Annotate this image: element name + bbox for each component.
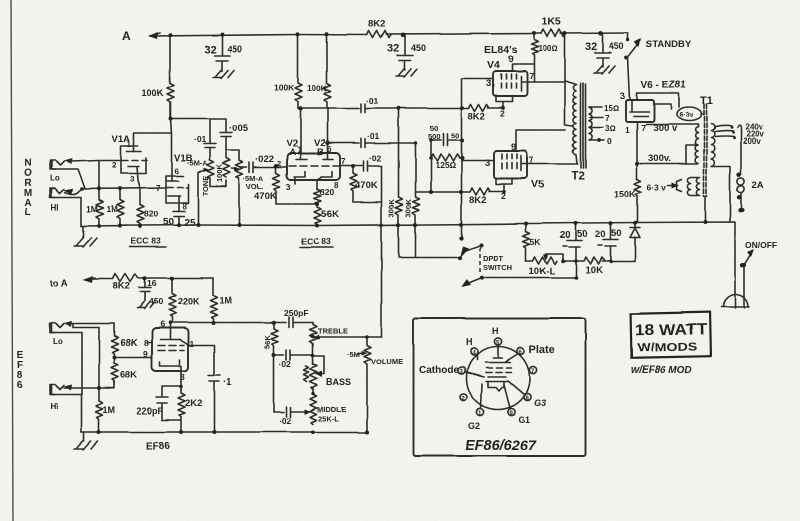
svg-text:8K2: 8K2 <box>113 281 130 292</box>
svg-text:MIDDLE: MIDDLE <box>317 405 346 414</box>
wire ground rail (EF86) <box>82 431 369 433</box>
resistor 8K2 (V4 grid stop) <box>399 104 504 111</box>
svg-text:1K5: 1K5 <box>542 16 561 28</box>
T1 HV centre tap <box>686 145 698 164</box>
svg-text:1M: 1M <box>103 405 116 415</box>
wire B+ rail <box>150 35 367 37</box>
svg-text:1: 1 <box>625 125 630 135</box>
wire B+ to OT centre tap <box>565 34 573 127</box>
transformer T1 HV secondary <box>695 127 698 163</box>
pin 2 <box>460 393 467 400</box>
svg-text:100K: 100K <box>142 88 164 98</box>
capacitor 20/50 (bias 2) <box>603 224 618 262</box>
wire Lo sleeve <box>52 170 85 189</box>
resistor 100K (V2A plate load) <box>295 35 302 110</box>
resistor 125 ohm (cathode bias) <box>431 140 462 161</box>
svg-text:6: 6 <box>160 319 165 329</box>
capacitor .01 (coupling to V5) <box>361 139 416 148</box>
potentiometer TREBLE <box>310 323 317 346</box>
svg-text:T2: T2 <box>571 171 584 183</box>
capacitor .01 (coupling to V4) <box>361 104 399 113</box>
paper speckle <box>0 0 1 1</box>
svg-text:32: 32 <box>204 44 216 56</box>
pin 9 <box>508 408 515 415</box>
svg-text:G2: G2 <box>468 421 480 431</box>
svg-text:G1: G1 <box>518 415 530 425</box>
svg-text:1M: 1M <box>219 295 232 305</box>
resistor 1M (input) <box>96 189 103 224</box>
resistor 470K (V2A grid leak) <box>273 166 317 204</box>
resistor 470K (divider) <box>350 166 382 202</box>
svg-text:9: 9 <box>143 349 148 359</box>
svg-text:7: 7 <box>529 155 534 165</box>
pin 3 <box>458 367 465 374</box>
resistor 100K (V1 plate load) <box>167 35 174 118</box>
resistor 5K <box>523 224 530 262</box>
resistor 8K2 (V5 grid stop) <box>416 188 505 195</box>
transformer T2 secondary <box>589 107 592 140</box>
resistor 56K (EF86 tone) <box>271 323 278 354</box>
wire Lo sleeve bus <box>52 333 82 395</box>
svg-text:3: 3 <box>486 78 491 89</box>
svg-text:VOL.: VOL. <box>246 182 264 191</box>
svg-text:3: 3 <box>180 372 185 382</box>
switch DPDT pole 1 <box>399 257 461 259</box>
svg-text:2A: 2A <box>752 180 764 191</box>
svg-text:8: 8 <box>182 202 187 211</box>
svg-text:300K: 300K <box>404 198 413 217</box>
svg-text:32: 32 <box>387 43 399 55</box>
svg-text:56K: 56K <box>263 335 272 349</box>
svg-text:820: 820 <box>320 187 334 197</box>
svg-text:·005: ·005 <box>229 123 249 134</box>
svg-text:450: 450 <box>227 44 242 54</box>
resistor 2K2 (cathode) <box>162 386 185 432</box>
resistor 68K (lower) <box>111 358 118 384</box>
svg-text:·022: ·022 <box>255 154 274 165</box>
potentiometer TONE .5M-A <box>207 160 214 178</box>
svg-text:EF86/6267: EF86/6267 <box>465 438 537 454</box>
svg-text:G3: G3 <box>534 398 546 408</box>
node A arrow (B+ rail to A) <box>150 33 160 36</box>
transformer T2 primary <box>565 81 577 164</box>
svg-text:50: 50 <box>577 229 588 240</box>
svg-text:3: 3 <box>130 175 135 184</box>
svg-text:16: 16 <box>147 278 157 288</box>
svg-text:20: 20 <box>595 229 606 240</box>
svg-text:470K: 470K <box>355 180 378 191</box>
tube V5 EL84 <box>494 151 527 179</box>
capacitor .02 (grid) <box>364 161 382 171</box>
svg-text:w/EF86 MOD: w/EF86 MOD <box>631 365 692 376</box>
svg-text:100Ω: 100Ω <box>538 44 558 53</box>
wire grid to EF86 <box>114 357 152 359</box>
svg-text:220pF: 220pF <box>137 406 164 416</box>
svg-text:H: H <box>492 326 499 336</box>
resistor 1M (input 2) <box>117 189 124 225</box>
EF86 pinout circle <box>467 347 530 410</box>
svg-text:32: 32 <box>585 41 597 53</box>
wire <box>560 32 628 35</box>
heater winding 6.3v (rectifier) <box>677 107 702 121</box>
potentiometer BASS <box>310 364 317 389</box>
svg-text:to A: to A <box>50 278 68 289</box>
transformer T1 primary <box>711 124 730 222</box>
switch DPDT pole 2 <box>466 278 576 285</box>
jack Lo (normal channel) <box>50 161 64 170</box>
wire <box>430 158 432 192</box>
svg-text:6·3v: 6·3v <box>679 112 693 119</box>
svg-text:1: 1 <box>127 140 132 149</box>
svg-text:8K2: 8K2 <box>469 195 486 206</box>
capacitor .01 (tone) <box>204 119 216 160</box>
ground <box>594 66 615 74</box>
svg-text:8: 8 <box>144 338 149 348</box>
svg-text:V6 - EZ81: V6 - EZ81 <box>641 80 686 91</box>
label NORMAL (vertical) <box>24 158 33 218</box>
svg-text:25K-L: 25K-L <box>318 414 339 423</box>
svg-text:2K2: 2K2 <box>185 398 202 409</box>
wire switch feed drop <box>381 166 383 337</box>
cathode V2B <box>317 172 332 190</box>
resistor 1M (EF86 plate-ish) <box>210 278 217 322</box>
label EF86 channel (vertical) <box>17 350 24 391</box>
capacitor 32/450 (filter 2) <box>401 33 406 38</box>
svg-text:·5M: ·5M <box>347 350 360 359</box>
triode V2A plate <box>296 109 307 160</box>
mains plug <box>721 295 749 308</box>
resistor 1K5 <box>541 30 565 37</box>
svg-text:·01: ·01 <box>194 134 207 144</box>
svg-text:20: 20 <box>560 230 571 241</box>
wire HT 300v upper <box>646 125 698 128</box>
pin 7 <box>529 366 536 373</box>
svg-text:8: 8 <box>334 181 339 190</box>
resistor 300K (V4 grid) <box>396 109 403 257</box>
svg-text:68K: 68K <box>120 370 138 381</box>
svg-text:1M: 1M <box>86 204 98 214</box>
svg-text:0: 0 <box>607 136 612 146</box>
svg-text:300 v: 300 v <box>653 123 677 134</box>
svg-text:220K: 220K <box>178 296 200 306</box>
capacitor 250pF <box>289 317 313 328</box>
svg-text:STANDBY: STANDBY <box>646 39 692 50</box>
capacitor .02 (bass) <box>274 350 313 360</box>
potentiometer VOLUME .5M <box>364 338 371 365</box>
wire plate node <box>172 322 286 324</box>
ground <box>213 70 234 78</box>
pin 8 <box>523 393 530 400</box>
svg-text:SWITCH: SWITCH <box>483 263 513 272</box>
triode V2B plate <box>323 108 333 160</box>
capacitor 20/50 (bias 1) <box>567 224 582 278</box>
resistor 100K (tone) <box>223 150 230 177</box>
wire rectifier output <box>636 122 638 179</box>
svg-text:450: 450 <box>411 43 426 53</box>
svg-text:B: B <box>317 147 324 158</box>
jack Lo (EF86) <box>50 323 64 333</box>
T1 primary taps 240/220/200 <box>715 126 734 137</box>
potentiometer VOL .5M-A <box>236 160 243 178</box>
wire plate node to tone stack <box>171 118 227 120</box>
svg-text:DPDT: DPDT <box>483 254 504 263</box>
capacitor .02 (middle) <box>274 407 305 417</box>
svg-text:Plate: Plate <box>529 344 555 356</box>
resistor 100 ohm (screen) <box>521 34 538 82</box>
svg-text:18 WATT: 18 WATT <box>635 321 708 340</box>
svg-text:ECC 83: ECC 83 <box>131 236 161 246</box>
wire Lo tip to V1A grid <box>70 161 121 162</box>
svg-text:450: 450 <box>149 296 163 306</box>
svg-text:·02: ·02 <box>369 153 382 163</box>
wire V2B grid tap <box>340 165 362 167</box>
capacitor .005 <box>220 119 239 160</box>
capacitor 32/450 (filter 3) <box>599 31 604 36</box>
wire HI sleeve to ground <box>52 395 82 433</box>
svg-text:300v.: 300v. <box>648 153 671 164</box>
svg-text:7: 7 <box>341 157 346 166</box>
page edge border line <box>11 0 13 521</box>
capacitor .022 (to V2A grid) <box>240 162 286 172</box>
svg-text:TONE: TONE <box>201 175 210 196</box>
svg-text:Cathode: Cathode <box>419 365 459 376</box>
fuse 2A <box>737 172 741 199</box>
svg-text:100K: 100K <box>307 83 328 93</box>
svg-text:450: 450 <box>609 41 624 51</box>
svg-text:W/MODS: W/MODS <box>637 341 698 354</box>
resistor 300K (V5 grid) <box>413 143 420 257</box>
svg-text:300K: 300K <box>387 198 396 217</box>
svg-text:H: H <box>466 337 473 347</box>
svg-text:6: 6 <box>17 380 23 391</box>
capacitor .1 (coupling) <box>208 376 220 433</box>
pin 6 <box>517 347 524 354</box>
svg-text:2: 2 <box>500 108 505 118</box>
diode (bias) <box>634 237 636 261</box>
svg-text:820: 820 <box>144 209 158 219</box>
resistor 220K <box>169 278 176 321</box>
wire grid bus <box>82 188 166 189</box>
capacitor 32/450 (filter 1) <box>214 35 230 72</box>
capacitor 50/500/50 (cathode bypass) <box>431 134 462 146</box>
wire HT 300v lower <box>637 163 697 165</box>
wire standby to V6 <box>628 57 630 100</box>
svg-text:125Ω: 125Ω <box>435 160 456 170</box>
potentiometer 10K-L <box>526 257 557 264</box>
svg-text:6·3 v: 6·3 v <box>647 182 667 192</box>
svg-text:·1: ·1 <box>223 377 232 388</box>
svg-text:·02: ·02 <box>279 359 292 369</box>
svg-text:50: 50 <box>163 217 175 228</box>
svg-text:8K2: 8K2 <box>468 111 485 122</box>
svg-text:BASS: BASS <box>326 377 351 387</box>
svg-text:EF86: EF86 <box>146 441 170 452</box>
pin 1 <box>476 408 483 415</box>
svg-text:50: 50 <box>611 228 622 239</box>
resistor 150K (bleeder) <box>634 179 641 221</box>
svg-text:68K: 68K <box>120 338 138 349</box>
svg-text:V4: V4 <box>487 59 500 71</box>
svg-text:VOLUME: VOLUME <box>371 357 403 366</box>
resistor 56K (tail) <box>314 204 321 225</box>
transformer T1 core <box>704 104 707 196</box>
wire HI tip hook <box>65 189 82 195</box>
resistor 820 (V1 cathode) <box>137 205 144 228</box>
svg-text:1: 1 <box>189 339 194 349</box>
pin 4 <box>470 348 477 355</box>
wire <box>386 34 541 35</box>
svg-text:·5M-A: ·5M-A <box>187 159 208 168</box>
capacitor 16/450 + ground <box>139 278 151 301</box>
svg-text:1M: 1M <box>106 204 118 214</box>
svg-text:50: 50 <box>451 131 459 140</box>
jack HI (EF86) <box>50 385 64 395</box>
svg-text:L: L <box>25 207 31 218</box>
svg-text:V5: V5 <box>531 179 544 191</box>
switch STANDBY <box>628 33 639 57</box>
pin 5 <box>494 338 501 345</box>
svg-text:150K: 150K <box>614 189 636 199</box>
svg-text:ON/OFF: ON/OFF <box>745 240 777 250</box>
wire tip bus drop <box>98 328 100 388</box>
svg-text:5K: 5K <box>530 237 542 247</box>
resistor 100K (V2B plate load) <box>324 35 331 109</box>
resistor 8K2 (EF86 supply) <box>93 274 213 282</box>
svg-text:6: 6 <box>174 167 179 176</box>
svg-text:·01: ·01 <box>367 131 380 141</box>
T2 secondary taps <box>589 107 604 140</box>
svg-text:·01: ·01 <box>366 96 379 106</box>
svg-text:100K: 100K <box>215 163 224 182</box>
wire tip bus drop <box>98 161 100 190</box>
capacitor 50/25 (V1 cathode bypass) <box>173 212 185 226</box>
potentiometer MIDDLE 25K-L <box>310 394 317 424</box>
resistor 8K2 (B+ dropper) <box>367 31 391 38</box>
svg-text:Lo: Lo <box>53 337 63 346</box>
svg-text:470K: 470K <box>254 191 277 202</box>
cathode V2A <box>294 172 305 185</box>
pentode EF86 <box>152 328 188 371</box>
svg-text:15Ω: 15Ω <box>604 104 619 113</box>
ground (EF86) <box>74 432 98 450</box>
ground (input) <box>74 226 97 247</box>
resistor 820 (V2 cathode) <box>314 189 321 204</box>
svg-text:3: 3 <box>485 158 490 169</box>
grid line V2 <box>289 165 339 167</box>
wire HI sleeve to ground rail <box>52 198 81 227</box>
wire ground rail (main) <box>81 222 735 293</box>
svg-text:3: 3 <box>620 91 625 102</box>
svg-text:2: 2 <box>112 161 117 170</box>
tube V2 ECC83 envelope <box>287 153 340 180</box>
ground <box>396 69 417 77</box>
wire HI tip <box>64 381 114 388</box>
svg-text:25: 25 <box>184 218 196 229</box>
svg-text:·02: ·02 <box>279 416 292 426</box>
svg-text:TREBLE: TREBLE <box>318 326 348 335</box>
svg-text:Lo: Lo <box>50 174 60 183</box>
resistor 10K <box>563 257 635 264</box>
wire V2B out <box>328 142 360 144</box>
svg-text:7: 7 <box>156 184 161 193</box>
wire V2A out <box>301 108 360 110</box>
svg-text:8K2: 8K2 <box>368 19 385 30</box>
svg-text:ECC 83: ECC 83 <box>301 236 331 246</box>
svg-text:3Ω: 3Ω <box>605 124 616 133</box>
EF86 internal electrodes <box>493 345 502 358</box>
wire cathode bus <box>461 79 463 239</box>
wire treble wiper to volume <box>314 336 382 338</box>
svg-text:A: A <box>122 29 131 43</box>
svg-text:7: 7 <box>605 113 610 123</box>
svg-text:A: A <box>289 147 296 158</box>
title box 18 WATT W/MODS <box>631 312 711 358</box>
jack HI (normal channel) <box>50 189 64 198</box>
wire tone left leg <box>273 355 275 412</box>
svg-text:10K-L: 10K-L <box>529 266 556 277</box>
capacitor 220pF (cathode) <box>156 386 181 420</box>
svg-text:HI: HI <box>51 203 59 212</box>
EF86 pinout diagram box <box>414 319 586 457</box>
resistor 1M (EF86 grid leak) <box>96 388 103 431</box>
transformer T2 core <box>581 83 586 168</box>
svg-text:3: 3 <box>286 183 291 192</box>
svg-text:HI: HI <box>50 402 58 411</box>
svg-text:200v: 200v <box>743 137 761 146</box>
resistor 68K (upper) <box>111 324 118 357</box>
wire Lo tip <box>66 324 114 328</box>
svg-text:7: 7 <box>529 71 534 81</box>
svg-text:56K: 56K <box>321 209 339 220</box>
svg-text:250pF: 250pF <box>284 308 309 318</box>
svg-text:10K: 10K <box>585 265 603 276</box>
svg-text:100K: 100K <box>274 83 295 93</box>
